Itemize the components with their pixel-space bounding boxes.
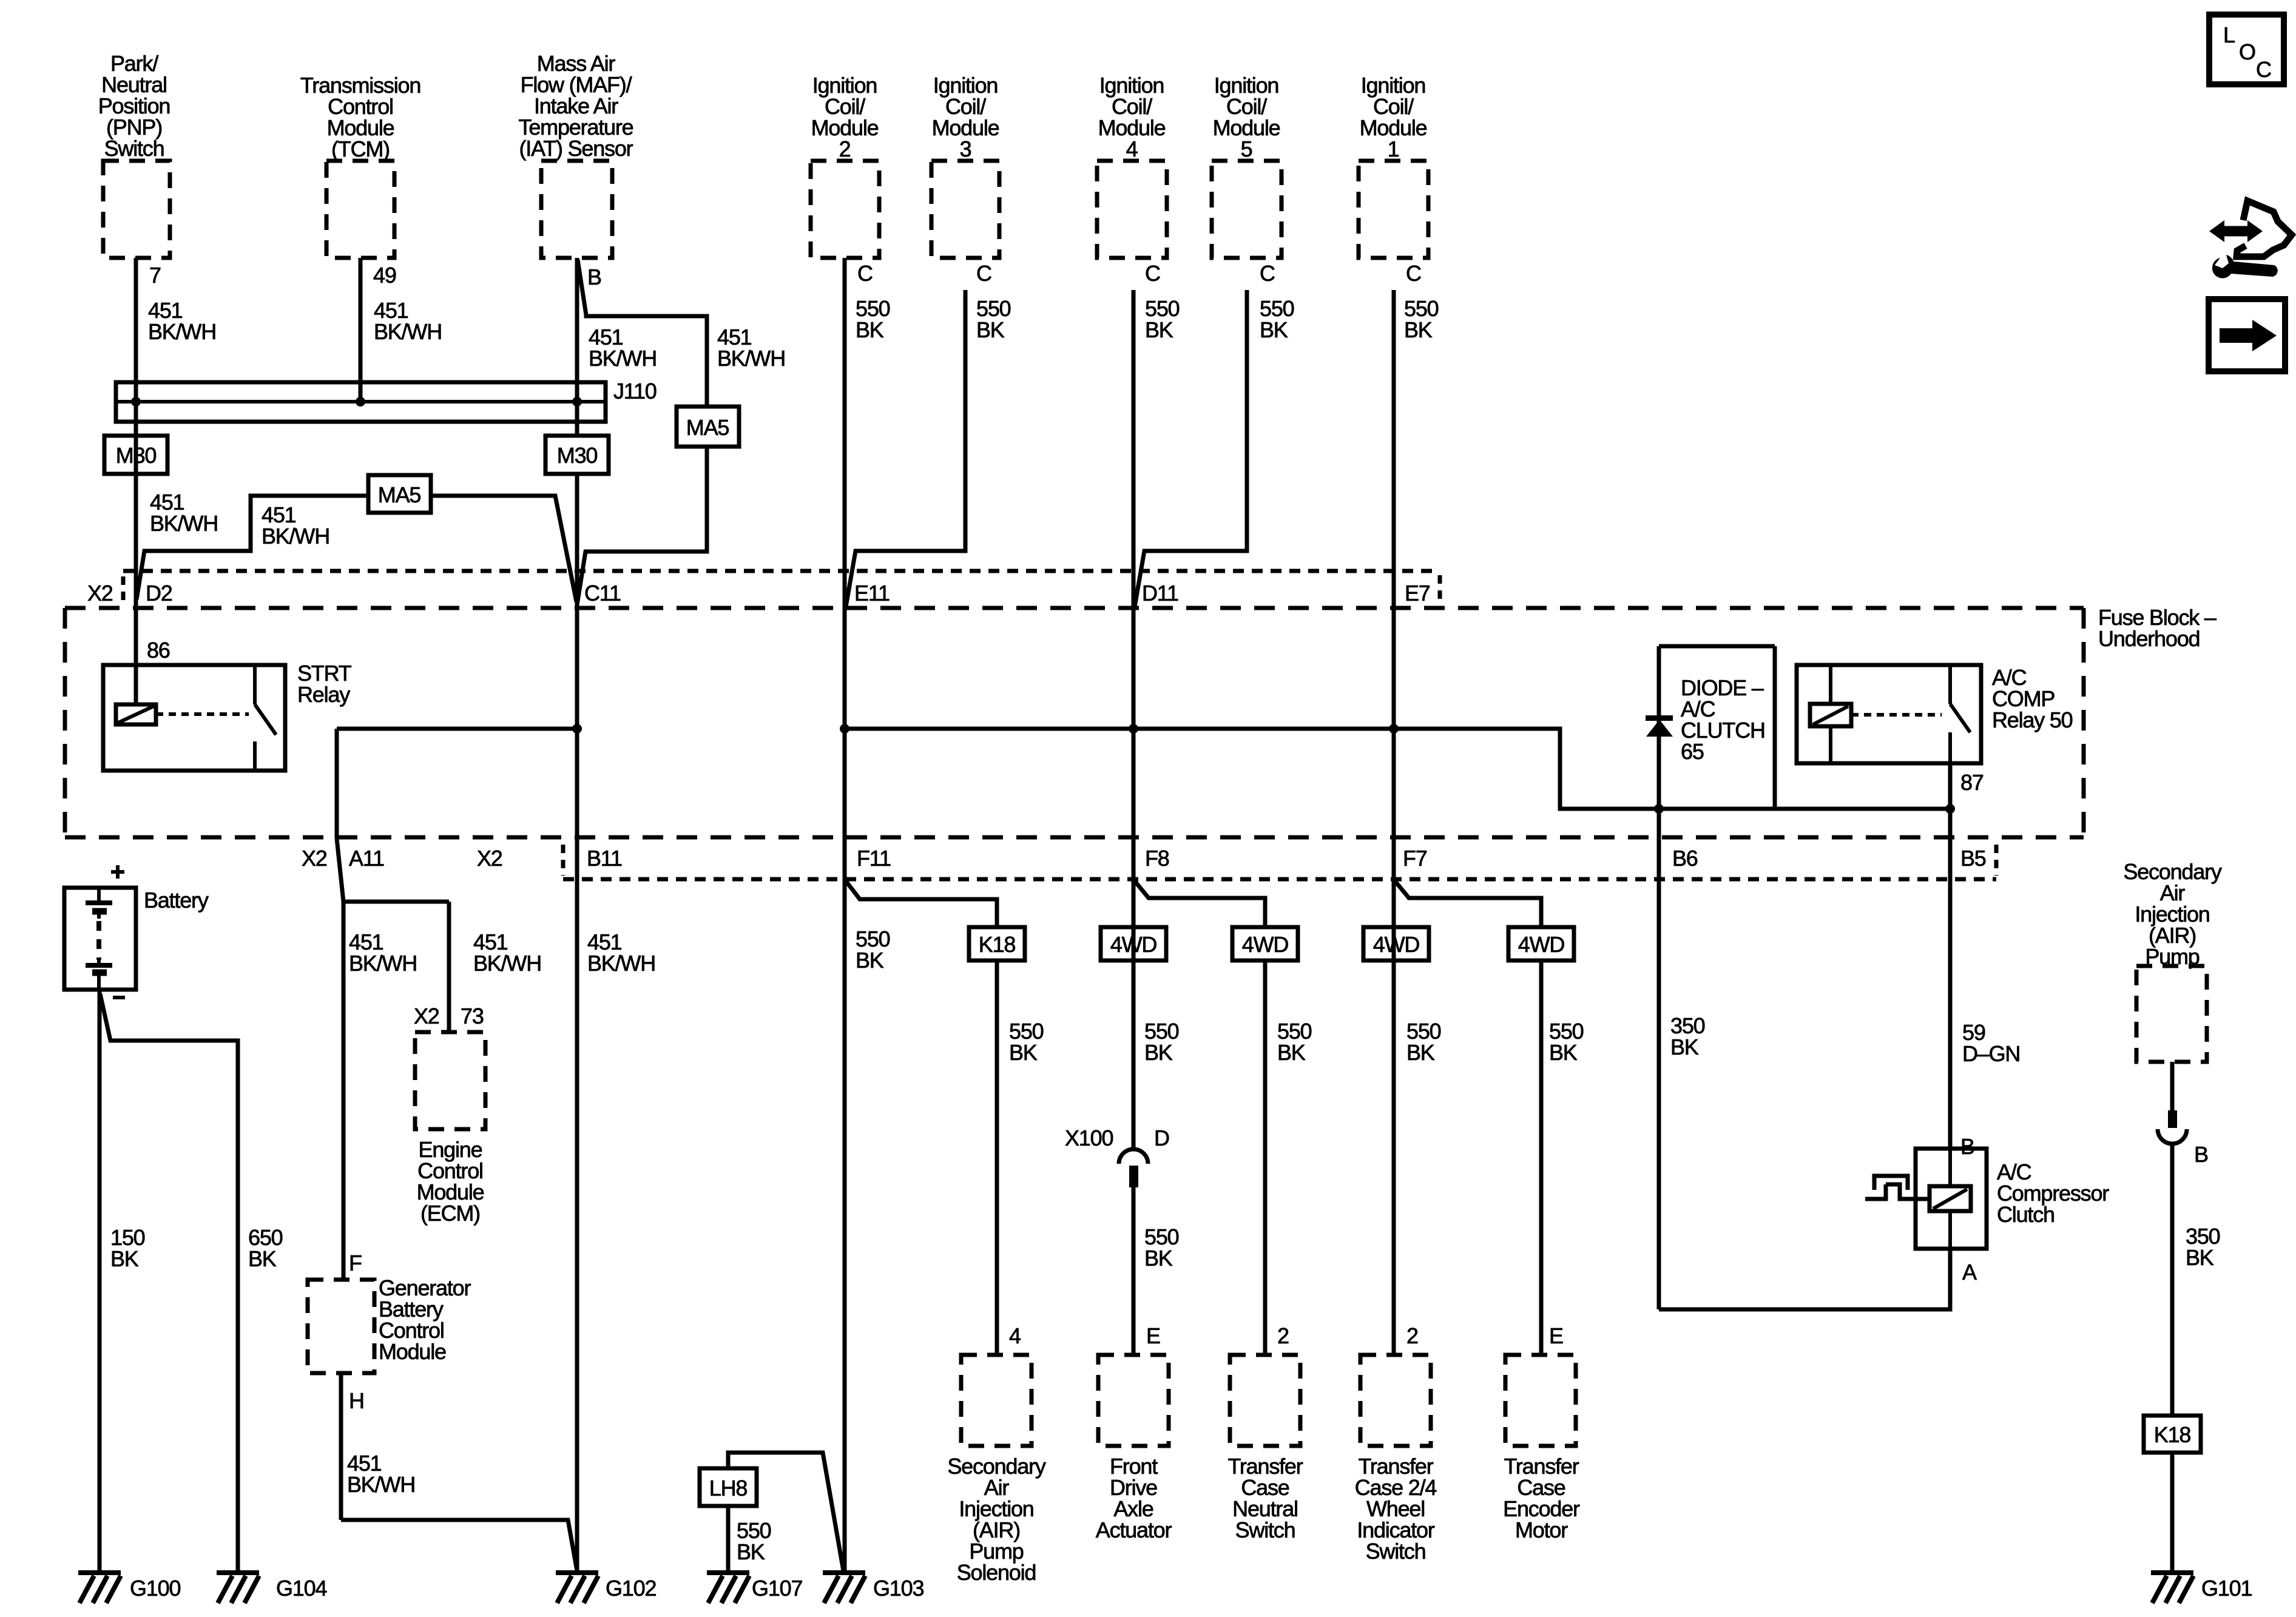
wire A11 column upper [335, 729, 339, 839]
connector tick X2 B11 [561, 845, 566, 876]
svg-text:C: C [1406, 261, 1421, 286]
transfer case encoder motor box [1505, 1355, 1576, 1446]
transfer case neutral switch box [1230, 1355, 1300, 1446]
Ignition Coil/Module 2 box [811, 161, 879, 258]
svg-text:4WD: 4WD [1518, 932, 1565, 957]
svg-text:2: 2 [1406, 1323, 1418, 1348]
battery [64, 888, 136, 990]
wire MA5 to C11 [577, 447, 707, 605]
svg-text:C11: C11 [584, 581, 621, 606]
wire 4WD to neutral switch [1263, 960, 1268, 1355]
svg-text:B: B [587, 265, 601, 289]
svg-text:X2: X2 [477, 846, 502, 871]
wire branch to ECM [343, 900, 449, 904]
front drive axle actuator box [1098, 1355, 1169, 1446]
connector row X2 top (dotted) [123, 569, 1440, 573]
wire AIR pump 350 BK [2170, 1144, 2175, 1416]
fuse block outline dashed bottom [65, 836, 2084, 840]
transfer case 2/4 wheel indicator switch box [1360, 1355, 1431, 1446]
battery minus sign [113, 996, 125, 999]
wire coil3 550 BK to E11 [846, 290, 965, 607]
Secondary AIR pump box [2136, 966, 2207, 1062]
junction at B11 column [572, 724, 582, 734]
svg-text:G103: G103 [873, 1576, 923, 1601]
wire F8 branch [1135, 881, 1265, 927]
TCM box [326, 161, 394, 258]
svg-text:73: 73 [461, 1004, 484, 1028]
svg-text:H: H [349, 1388, 364, 1413]
fuse 4WD box F8 [1101, 927, 1166, 960]
icon arrow box [2209, 299, 2285, 371]
svg-text:49: 49 [373, 263, 396, 288]
svg-text:K18: K18 [979, 932, 1016, 957]
wire K18 to AIR pump solenoid [995, 960, 999, 1355]
svg-text:E: E [1146, 1323, 1160, 1348]
svg-text:4WD: 4WD [1110, 932, 1157, 957]
AIR pump solenoid box [961, 1355, 1032, 1446]
wire relay 87 down [1948, 763, 1953, 809]
svg-text:X2: X2 [414, 1004, 439, 1028]
svg-text:F8: F8 [1145, 846, 1169, 871]
svg-text:E11: E11 [854, 581, 890, 606]
wire A11 column 451 BK/WH [337, 839, 343, 1280]
junction TCM at J110 [356, 397, 365, 407]
thermal limiter symbol [1865, 1184, 1886, 1199]
svg-text:X2: X2 [87, 581, 113, 606]
wire F11 to G103 [843, 881, 847, 1573]
Ignition Coil/Module 5 box [1212, 161, 1281, 258]
svg-text:4WD: 4WD [1373, 932, 1420, 957]
icon LOC box [2209, 15, 2284, 84]
junction MAF at J110 [572, 397, 582, 407]
MAF/IAT Sensor box [541, 161, 612, 258]
battery plus sign [116, 865, 120, 879]
diode A/C clutch 65 [1657, 646, 1661, 809]
Ignition Coil/Module 4 box [1097, 161, 1167, 258]
connector tick right of E7 [1438, 575, 1442, 604]
fuse M30 left box [104, 436, 167, 474]
wire F11 branch to K18 [846, 881, 997, 927]
svg-text:A11: A11 [349, 846, 384, 871]
svg-text:STRTRelay: STRTRelay [297, 661, 352, 707]
wire F7 branch [1395, 881, 1541, 927]
svg-text:G102: G102 [606, 1576, 656, 1601]
svg-text:Fuse Block –Underhood: Fuse Block –Underhood [2098, 605, 2217, 651]
ground G101 [2151, 1570, 2193, 1575]
svg-text:B5: B5 [1960, 846, 1986, 871]
wire battery 150 BK [98, 990, 102, 1573]
svg-text:E: E [1549, 1323, 1563, 1348]
svg-text:F11: F11 [857, 846, 891, 871]
fuse 4WD box neutral switch [1232, 927, 1298, 960]
wire coil1 550 BK [1392, 290, 1396, 1355]
svg-text:A: A [1962, 1260, 1977, 1284]
junction PNP at J110 [131, 397, 141, 407]
svg-text:4: 4 [1009, 1323, 1021, 1348]
svg-text:D2: D2 [146, 581, 172, 606]
junction diode bus [1654, 804, 1664, 814]
splice J110 bus [116, 382, 606, 422]
wire PNP 451 BK/WH [134, 258, 138, 704]
svg-text:7: 7 [149, 263, 161, 288]
svg-text:2: 2 [1277, 1323, 1289, 1348]
svg-text:B6: B6 [1672, 846, 1698, 871]
svg-text:L: L [2223, 22, 2235, 47]
fuse block outline left edge [63, 608, 67, 837]
svg-text:86: 86 [147, 638, 170, 663]
svg-text:G104: G104 [276, 1576, 326, 1601]
wire 650 BK [100, 994, 238, 1573]
ground G103 [823, 1570, 865, 1575]
fuse block outline dashed top [65, 606, 2084, 610]
wire MAF 451 BK/WH [575, 258, 579, 402]
wire coil2 550 BK [843, 258, 847, 881]
svg-text:EngineControlModule(ECM): EngineControlModule(ECM) [417, 1137, 484, 1226]
wire C11/B11 column 451 BK/WH [575, 474, 579, 1573]
svg-text:X2: X2 [302, 846, 327, 871]
svg-text:MA5: MA5 [686, 415, 729, 440]
PNP Switch box [103, 161, 170, 258]
junction D11 bus [1129, 724, 1138, 734]
connector row bottom (dotted) [563, 877, 1996, 882]
svg-text:C: C [976, 261, 991, 286]
svg-text:G100: G100 [130, 1576, 180, 1601]
svg-text:B: B [2194, 1142, 2208, 1167]
wire TCM 451 BK/WH [359, 258, 363, 402]
wire coil4 550 BK [1132, 290, 1136, 1149]
svg-text:F: F [349, 1251, 362, 1275]
connector tick right of B5 [1994, 845, 1999, 876]
wire B6 350 BK [1657, 809, 1661, 1309]
wire coil5 550 BK to D11 [1135, 290, 1247, 607]
relay STRT [103, 665, 285, 771]
svg-text:C: C [1145, 261, 1160, 286]
svg-text:F7: F7 [1403, 846, 1427, 871]
wire GBCM H 451 BK/WH [339, 1373, 343, 1520]
fuse MA5 right box [677, 407, 739, 447]
fuse LH8 box [700, 1468, 757, 1506]
fuse block outline right edge [2082, 608, 2086, 837]
svg-text:O: O [2239, 39, 2255, 64]
svg-text:D11: D11 [1142, 581, 1178, 606]
svg-text:TransferCaseNeutralSwitch: TransferCaseNeutralSwitch [1227, 1454, 1303, 1542]
wire K18 to G101 [2170, 1453, 2175, 1573]
wire 4WD to encoder motor [1539, 960, 1544, 1355]
wire J110 to M30 right [575, 402, 579, 436]
relay A/C COMP Relay 50 [1797, 665, 1981, 763]
svg-text:M30: M30 [116, 443, 157, 468]
fuse 4WD box encoder motor [1508, 927, 1574, 960]
junction E7 bus [1389, 724, 1399, 734]
Ignition Coil/Module 3 box [931, 161, 999, 258]
Ignition Coil/Module 1 box [1359, 161, 1428, 258]
svg-text:Battery: Battery [144, 888, 209, 913]
fuse M30 right box [545, 436, 609, 474]
wire ignition ground bus [845, 729, 1950, 809]
wire MA5 left to C11 [431, 496, 576, 602]
junction relay87 bus [1945, 804, 1955, 814]
svg-text:K18: K18 [2154, 1422, 2191, 1447]
junction E11 bus [840, 724, 849, 734]
svg-text:B11: B11 [587, 846, 622, 871]
svg-text:X100: X100 [1065, 1126, 1113, 1150]
svg-text:C: C [857, 261, 873, 286]
wire X100 to actuator [1132, 1187, 1136, 1355]
wire MAF branch to MA5 [578, 260, 707, 407]
svg-text:LH8: LH8 [709, 1476, 748, 1501]
svg-text:C: C [1260, 261, 1275, 286]
A/C compressor clutch [1916, 1149, 1987, 1249]
svg-text:J110: J110 [613, 379, 657, 403]
fuse K18 right box [2144, 1416, 2201, 1453]
wire AIR pump [2170, 1062, 2175, 1110]
ground G107 [707, 1570, 749, 1575]
wire ECM 451 BK/WH [447, 902, 451, 1032]
ECM box [415, 1032, 485, 1129]
fuse K18 box [969, 927, 1025, 960]
icon tool/vehicle [2218, 226, 2254, 237]
fuse 4WD box F7 [1363, 927, 1429, 960]
svg-text:87: 87 [1960, 770, 1984, 795]
wire STRT branch to B11 column [337, 727, 577, 731]
Generator Battery Control Module box [308, 1280, 374, 1373]
ground G104 [217, 1570, 259, 1575]
wire GBCM H to G102 [341, 1520, 577, 1571]
svg-text:D: D [1154, 1126, 1169, 1150]
ground G102 [556, 1570, 598, 1575]
connector tick X2 left top [121, 576, 126, 606]
svg-text:TransferCase 2/4WheelIndicator: TransferCase 2/4WheelIndicatorSwitch [1355, 1454, 1437, 1564]
wire LH8 550 BK [726, 1506, 731, 1573]
svg-text:SecondaryAirInjection(AIR)Pump: SecondaryAirInjection(AIR)PumpSolenoid [947, 1454, 1046, 1585]
svg-text:4WD: 4WD [1242, 932, 1289, 957]
wire clutch A to B6 [1659, 1249, 1950, 1309]
svg-text:MA5: MA5 [378, 482, 421, 507]
svg-text:G101: G101 [2201, 1576, 2252, 1601]
svg-text:M30: M30 [557, 443, 598, 468]
wire B5 59 D-GN [1948, 809, 1953, 1149]
svg-text:E7: E7 [1405, 581, 1430, 606]
svg-text:G107: G107 [752, 1576, 802, 1601]
fuse MA5 left box [368, 475, 431, 513]
wire LH8 to G103 [728, 1453, 843, 1571]
ground G100 [78, 1570, 121, 1575]
inline connector pin B AIR pump [2168, 1110, 2177, 1128]
wire D2 to MA5 left [137, 496, 368, 599]
svg-text:C: C [2256, 57, 2271, 82]
